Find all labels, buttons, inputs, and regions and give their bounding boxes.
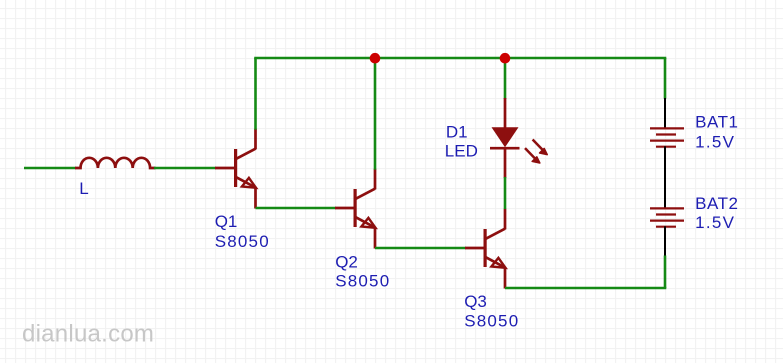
LED D1 — [490, 98, 547, 178]
wire top rail — [254, 57, 666, 60]
wire Q2 collector riser — [374, 57, 377, 170]
svg-text:BAT2: BAT2 — [695, 194, 738, 213]
svg-text:Q1: Q1 — [215, 212, 238, 231]
wire right branch bottom — [664, 256, 667, 289]
svg-text:L: L — [79, 179, 88, 198]
wire Q1 emitter to Q2 base — [256, 207, 337, 210]
wire LED branch top — [504, 57, 507, 99]
wire inductor to Q1 base — [154, 167, 216, 170]
wire left input to inductor — [24, 167, 76, 170]
battery BAT2 — [650, 177, 684, 257]
svg-text:D1: D1 — [446, 122, 468, 141]
svg-text:1.5V: 1.5V — [695, 133, 735, 152]
svg-text:BAT1: BAT1 — [695, 113, 738, 132]
svg-text:S8050: S8050 — [215, 232, 270, 251]
transistor Q2 — [335, 169, 376, 249]
wire Q1 collector riser — [254, 58, 257, 130]
wire Q2 emitter to Q3 base — [375, 247, 466, 250]
battery BAT1 — [650, 98, 684, 177]
wire bottom rail Q3 emitter to battery — [505, 287, 666, 290]
svg-text:1.5V: 1.5V — [695, 213, 735, 232]
svg-text:Q2: Q2 — [335, 252, 358, 271]
svg-text:LED: LED — [445, 142, 478, 161]
svg-text:dianlua.com: dianlua.com — [22, 321, 154, 348]
transistor Q1 — [215, 129, 256, 209]
svg-text:S8050: S8050 — [335, 271, 390, 290]
junction node at Q2 collector — [370, 53, 381, 64]
junction node at LED branch — [500, 53, 511, 64]
inductor L — [75, 158, 156, 168]
svg-text:Q3: Q3 — [464, 292, 487, 311]
transistor Q3 — [465, 209, 506, 289]
wire right branch top — [664, 58, 667, 99]
svg-text:S8050: S8050 — [464, 311, 519, 330]
wire LED cathode to Q3 collector — [504, 177, 507, 209]
